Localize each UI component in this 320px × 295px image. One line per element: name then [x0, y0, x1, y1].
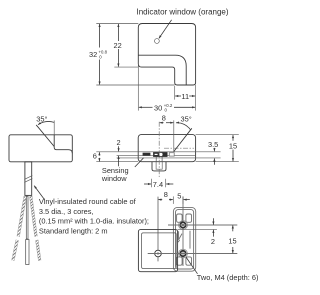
tick mounting face — [172, 196, 174, 204]
svg-text:8: 8 — [162, 114, 166, 123]
svg-text:22: 22 — [114, 41, 122, 50]
bottom edge extension left — [96, 161, 138, 163]
angle reference vertical — [53, 120, 55, 134]
35 deg mid arc — [176, 123, 191, 130]
wire right (hatched) — [31, 196, 40, 260]
wire middle upper — [26, 196, 28, 239]
svg-text:5: 5 — [177, 191, 181, 200]
bottom edge extension right — [196, 161, 239, 163]
tick hole axis — [182, 196, 184, 204]
svg-text:3.5: 3.5 — [208, 140, 218, 149]
svg-text:7.4: 7.4 — [153, 180, 163, 189]
dimension 32 line — [99, 24, 101, 48]
window line L1 — [96, 151, 220, 153]
leader sensing window — [135, 158, 144, 167]
rail outer — [173, 207, 195, 271]
channel walls between holes — [178, 231, 180, 240]
horizontal centerline dash-dot — [164, 147, 194, 149]
pocket bottom-left — [177, 257, 183, 265]
extension line left of 11 dim — [174, 86, 176, 100]
cable in boss — [156, 162, 162, 170]
hole upper M4 — [179, 221, 188, 230]
svg-text:15: 15 — [228, 237, 236, 246]
pocket top-left — [177, 214, 183, 222]
svg-text:window: window — [101, 174, 127, 183]
35 deg beam line — [36, 125, 54, 147]
dim 15 right — [232, 135, 234, 141]
svg-text:Two, M4 (depth: 6): Two, M4 (depth: 6) — [197, 273, 259, 282]
hole lower M4 — [179, 249, 188, 258]
inner step fillet line — [138, 55, 186, 85]
dim 15 right bottom — [232, 225, 234, 231]
cable hole lines to bottom — [155, 157, 157, 162]
body rounded rect — [138, 135, 195, 162]
svg-text:Standard length: 2 m: Standard length: 2 m — [39, 226, 108, 235]
35 deg mid diagonal — [174, 128, 192, 151]
leader to indicator window — [159, 20, 172, 39]
dim 2 left — [118, 146, 120, 151]
body rear inner — [142, 233, 177, 269]
leader M4 — [186, 257, 197, 273]
projection centerline hole axis — [182, 197, 184, 266]
extension line right of 30 dim — [195, 85, 197, 111]
white slit in window — [155, 154, 158, 155]
sensing window dark block left — [143, 153, 151, 156]
wire middle lower — [26, 240, 29, 265]
dim 7.4 arrows — [144, 183, 151, 185]
indicator window circle — [155, 39, 160, 44]
svg-text:8: 8 — [164, 190, 168, 199]
centerline through holes upper — [168, 224, 237, 226]
window line L2 — [117, 154, 196, 156]
svg-text:Indicator window (orange): Indicator window (orange) — [137, 8, 229, 17]
cable hole circle — [155, 250, 162, 257]
extension line left of 30 dim — [137, 63, 139, 111]
svg-text:2: 2 — [211, 237, 215, 246]
projection centerline cable axis — [157, 197, 159, 262]
svg-text:15: 15 — [229, 141, 237, 150]
svg-text:32: 32 — [89, 50, 97, 59]
body outline L-shape — [138, 24, 195, 86]
cable break marks — [24, 176, 32, 180]
extension line step floor — [114, 66, 138, 68]
cable — [25, 162, 32, 196]
wire left (hatched) — [13, 196, 25, 260]
dimension 30 +0.2/0 — [139, 106, 153, 108]
svg-text:Vinyl-insulated round cable of: Vinyl-insulated round cable of — [39, 197, 137, 206]
pocket bottom-right — [186, 257, 192, 265]
top edge extension right — [196, 134, 239, 136]
body top edge extension — [178, 228, 217, 230]
step contour — [54, 135, 72, 153]
svg-text:6: 6 — [93, 152, 97, 161]
svg-text:(0.15 mm² with 1.0-dia. insula: (0.15 mm² with 1.0-dia. insulator); — [39, 217, 149, 226]
dim 7.4 ticks — [151, 179, 153, 188]
pocket top-right — [186, 214, 192, 222]
sensing window dark block center — [153, 152, 167, 157]
cable boss below body — [152, 162, 166, 171]
dim 8 bottom arrows — [158, 199, 162, 201]
lens circle — [159, 152, 163, 156]
svg-text:30: 30 — [154, 103, 162, 112]
dim 3.5 right — [213, 148, 215, 151]
rail inner — [176, 210, 194, 269]
svg-text:11: 11 — [181, 92, 189, 101]
dim 2 right — [212, 218, 214, 224]
dimension 11 — [175, 95, 181, 97]
body rear outer — [138, 229, 177, 271]
svg-text:2: 2 — [117, 138, 121, 147]
dim 5 arrow — [184, 199, 190, 201]
dimension 22 line — [117, 24, 119, 41]
window outline right piece — [169, 153, 174, 156]
body rectangle — [9, 135, 72, 162]
dim 8 top: tick — [173, 120, 175, 152]
svg-text:3.5 dia., 3 cores,: 3.5 dia., 3 cores, — [39, 207, 94, 216]
vertical centerline dash-dot — [158, 122, 160, 177]
extension line bottom — [96, 84, 174, 86]
centerline through cable hole and lower hole — [148, 253, 238, 255]
svg-text:35°: 35° — [181, 114, 192, 123]
window line L3 — [117, 157, 221, 159]
dim 6 left — [98, 152, 100, 155]
dim 8 arrows — [160, 122, 164, 124]
svg-text:35°: 35° — [36, 115, 47, 124]
extension line top — [96, 23, 138, 25]
leader to cable — [34, 186, 45, 200]
angle arc with arrow — [38, 122, 54, 125]
